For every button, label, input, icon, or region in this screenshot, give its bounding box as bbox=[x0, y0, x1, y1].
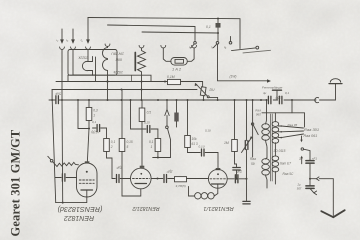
capacitor C10 grid V2 bbox=[112, 178, 131, 180]
transformer T1 core bbox=[270, 114, 272, 181]
jack J1 bbox=[315, 98, 319, 103]
svg-text:1: 1 bbox=[93, 114, 95, 118]
svg-text:1: 1 bbox=[151, 145, 153, 149]
tube V1 bbox=[77, 163, 98, 197]
label R4 value bbox=[167, 75, 175, 79]
svg-text:Raa: Raa bbox=[250, 157, 256, 161]
bus junction dots bbox=[51, 99, 53, 101]
svg-text:10k: 10k bbox=[192, 137, 198, 141]
capacitor C1 bbox=[56, 96, 59, 104]
coil L2 bbox=[82, 61, 88, 70]
wire bus2 bbox=[108, 25, 196, 41]
svg-text:1522k: 1522k bbox=[78, 56, 88, 60]
svg-text:1M: 1M bbox=[224, 141, 229, 145]
svg-text:REN1821/1: REN1821/1 bbox=[203, 205, 233, 211]
label A1 bbox=[55, 39, 59, 43]
label C12 value bbox=[199, 145, 206, 149]
contact K4 bbox=[48, 156, 51, 159]
contact K3 bbox=[230, 37, 232, 42]
resistor R8 bbox=[234, 100, 236, 140]
resistor R10 bbox=[121, 90, 123, 139]
wire heater line bbox=[52, 89, 197, 91]
wire L1 to bus bbox=[107, 70, 109, 100]
svg-text:4μ: 4μ bbox=[263, 91, 267, 95]
svg-text:2μF: 2μF bbox=[235, 170, 243, 174]
label R2 value bbox=[147, 111, 152, 115]
svg-text:0,5: 0,5 bbox=[147, 111, 152, 115]
contact K1 bbox=[194, 42, 197, 45]
label Raa59 bbox=[250, 157, 256, 161]
resistor R6 bbox=[175, 177, 187, 182]
wire left rail bbox=[51, 90, 53, 101]
label A2 bbox=[65, 39, 69, 43]
arrowhead detector bbox=[267, 79, 271, 82]
svg-text:(RENS1823d): (RENS1823d) bbox=[58, 205, 103, 214]
contact K8 bbox=[310, 188, 314, 192]
svg-text:Raa: Raa bbox=[255, 108, 261, 112]
diode D1 bbox=[166, 100, 168, 110]
svg-text:0,1U: 0,1U bbox=[199, 145, 206, 149]
label C13 value bbox=[235, 170, 243, 174]
tap selector arrow bbox=[301, 136, 303, 140]
wire mid line bbox=[56, 82, 203, 88]
label C17 value bbox=[297, 182, 302, 186]
variable capacitor C8 bbox=[246, 100, 248, 141]
resistor R9 bbox=[104, 139, 110, 152]
label L1 value b bbox=[115, 58, 122, 62]
label R8 value bbox=[224, 141, 229, 145]
label R9 value bbox=[111, 140, 116, 144]
resistor R3 bbox=[155, 139, 161, 152]
svg-text:+1(9): +1(9) bbox=[91, 130, 99, 134]
svg-text:REN1822: REN1822 bbox=[64, 214, 94, 221]
capacitor C17 bbox=[306, 186, 314, 189]
wire to speaker bbox=[309, 178, 311, 180]
wire bus1 top bbox=[88, 18, 240, 49]
svg-text:REN1821/2: REN1821/2 bbox=[132, 205, 159, 211]
wire A2 down bbox=[73, 49, 96, 75]
label R6 value bbox=[176, 184, 186, 188]
label C6 bbox=[285, 91, 290, 95]
label A3 bbox=[79, 39, 84, 44]
label C11 value bbox=[166, 170, 174, 174]
svg-text:Raa 061: Raa 061 bbox=[304, 134, 318, 138]
label tap Raa47 bbox=[280, 162, 291, 166]
coil shield box bbox=[68, 50, 117, 76]
label R5 value bbox=[210, 88, 215, 92]
label T1 top bbox=[255, 108, 261, 112]
wire A1 down bbox=[61, 49, 64, 202]
label C5 bbox=[263, 91, 267, 95]
svg-text:0,3: 0,3 bbox=[93, 109, 98, 113]
svg-text:1522k: 1522k bbox=[113, 70, 123, 74]
transformer T1 primary lead bbox=[265, 100, 268, 124]
capacitor C14 bbox=[233, 168, 241, 171]
label C2 value bbox=[275, 96, 281, 100]
capacitor C2 bbox=[273, 89, 282, 91]
contact K5 bbox=[166, 126, 169, 129]
wire branch to R1 junction bbox=[78, 100, 89, 129]
antenna dome E1 bbox=[329, 83, 342, 85]
svg-text:Fernempfänger: Fernempfänger bbox=[262, 86, 284, 90]
resistor R1 bbox=[88, 100, 90, 108]
transformer T1 winding B bbox=[274, 113, 276, 122]
fuse F1 bbox=[217, 19, 219, 41]
svg-text:1W 28U: 1W 28U bbox=[111, 52, 124, 56]
antenna arrow A3 bbox=[87, 18, 89, 40]
svg-text:60R: 60R bbox=[115, 58, 122, 62]
antenna arrow A1 bbox=[61, 29, 63, 39]
svg-text:1 A 2: 1 A 2 bbox=[172, 67, 182, 72]
wire L3 to bus bbox=[141, 72, 143, 100]
svg-text:(1W): (1W) bbox=[230, 75, 237, 79]
label R3 value bbox=[149, 140, 154, 144]
capacitor C11 bbox=[164, 175, 167, 183]
transformer T1 winding A2 bbox=[266, 157, 267, 159]
tap selector fan bbox=[281, 126, 303, 128]
label C1 value bbox=[54, 92, 61, 96]
svg-text:61 3: 61 3 bbox=[192, 142, 198, 146]
svg-text:2μF: 2μF bbox=[115, 166, 123, 170]
capacitor C5 series bbox=[268, 96, 271, 103]
wire bbox=[153, 157, 171, 159]
label L2 value bbox=[78, 56, 88, 60]
svg-text:100: 100 bbox=[275, 96, 281, 100]
label tap Raa95 bbox=[288, 123, 298, 127]
selector rail bbox=[252, 100, 254, 157]
capacitor C16 bbox=[306, 161, 314, 164]
label F2 value bbox=[172, 67, 182, 72]
tap stubs bbox=[278, 126, 281, 138]
small labels bbox=[54, 25, 319, 191]
capacitor C13 bbox=[235, 175, 238, 183]
speaker arrow S1 bbox=[321, 211, 333, 217]
label tap Raa50 bbox=[283, 172, 295, 176]
label R1 value bbox=[93, 109, 98, 113]
resistor R2 bbox=[141, 100, 143, 108]
label tube V1 bbox=[58, 205, 103, 214]
fuse F2 bbox=[171, 58, 188, 66]
svg-text:0,1U: 0,1U bbox=[205, 129, 212, 133]
wire K2 to detector line bbox=[218, 44, 268, 81]
label R1 note bbox=[91, 130, 99, 134]
label L1 value a bbox=[111, 52, 124, 56]
svg-text:0,15: 0,15 bbox=[127, 140, 133, 144]
capacitor C3 grid bbox=[55, 177, 77, 179]
lever arrow K9 bbox=[301, 156, 303, 159]
tube labels rotated 180 bbox=[58, 205, 234, 221]
capacitor C6 series bbox=[279, 96, 282, 103]
label C10 value bbox=[115, 166, 123, 170]
label C9 value bbox=[92, 120, 97, 124]
coil L3 zigzag bbox=[138, 48, 146, 72]
svg-text:0,1: 0,1 bbox=[111, 140, 116, 144]
label C16 note bbox=[312, 157, 318, 161]
label tap Raa301 bbox=[304, 127, 319, 132]
svg-text:0,25: 0,25 bbox=[144, 121, 150, 125]
svg-text:0,1: 0,1 bbox=[92, 120, 97, 124]
capacitor C15 bbox=[243, 201, 250, 204]
fuse F2 hooks bbox=[161, 46, 166, 48]
label C16 value bbox=[298, 157, 303, 161]
label K2 bbox=[210, 46, 214, 50]
tube V2 top cap bbox=[140, 166, 145, 168]
svg-text:6am E7: 6am E7 bbox=[280, 162, 291, 166]
label pot note bbox=[230, 75, 237, 79]
svg-text:2μF: 2μF bbox=[166, 170, 174, 174]
svg-text:Raa 95: Raa 95 bbox=[288, 123, 298, 127]
label K1 bbox=[188, 46, 192, 50]
label tube V2 bbox=[132, 205, 159, 211]
label R10 value bbox=[127, 140, 133, 144]
capacitor C4 bbox=[131, 100, 158, 139]
svg-text:0,1: 0,1 bbox=[149, 140, 154, 144]
capacitor C7 block bbox=[176, 100, 178, 113]
wire V1 cathode bbox=[56, 197, 87, 203]
svg-text:5nF: 5nF bbox=[54, 92, 61, 96]
coil L5 zigzag bbox=[53, 162, 79, 167]
svg-text:Raa 5C: Raa 5C bbox=[283, 172, 295, 176]
label F1 bbox=[206, 25, 211, 29]
svg-text:3Ω 0115: 3Ω 0115 bbox=[274, 149, 286, 153]
coil L4 cathode bbox=[214, 188, 218, 196]
band switch lever bbox=[232, 48, 256, 51]
svg-text:0,1: 0,1 bbox=[285, 91, 290, 95]
svg-text:+F1: +F1 bbox=[312, 157, 318, 161]
label tube V3 bbox=[203, 205, 233, 211]
label L1 value c bbox=[113, 70, 123, 74]
transformer T1 winding A bbox=[262, 124, 270, 129]
svg-text:3,7M(5): 3,7M(5) bbox=[176, 184, 186, 188]
wire box bbox=[291, 100, 293, 113]
tube V1 top cap bbox=[85, 161, 90, 163]
tube V3 bbox=[208, 169, 227, 188]
label K3 bbox=[223, 46, 227, 50]
resistor R7 bbox=[187, 100, 189, 136]
transformer T1 winding B2 bbox=[272, 156, 279, 161]
label R7 value bbox=[192, 137, 198, 141]
main bus bbox=[49, 99, 56, 101]
potentiometer R5 bbox=[200, 87, 206, 96]
wire V3 anode bbox=[227, 178, 234, 180]
antenna arrow A2 bbox=[72, 29, 74, 39]
svg-text:0,1: 0,1 bbox=[206, 25, 211, 29]
wire A3 down bbox=[87, 49, 89, 61]
svg-text:0,1M: 0,1M bbox=[167, 75, 175, 79]
label tap Raa115 bbox=[274, 149, 286, 153]
label tap Raa061 bbox=[304, 134, 318, 138]
resistor R4 bbox=[168, 79, 181, 84]
wire V2 anode bbox=[151, 178, 163, 180]
tube V2 bbox=[131, 168, 152, 189]
contact K2 bbox=[216, 42, 219, 45]
contact K7 bbox=[301, 148, 303, 150]
label text note bbox=[262, 86, 284, 90]
contact K6 bbox=[251, 123, 253, 125]
tube V3 top cap bbox=[216, 168, 221, 170]
label C4 value bbox=[144, 121, 150, 125]
capacitor C9 bbox=[93, 128, 107, 139]
svg-text:5: 5 bbox=[127, 145, 129, 149]
wire pot to bus bbox=[203, 96, 205, 100]
coil L3 core bbox=[134, 53, 136, 71]
coil L1 vertical bbox=[105, 44, 110, 46]
svg-text:50Γ: 50Γ bbox=[297, 187, 302, 191]
svg-text:062: 062 bbox=[256, 112, 262, 116]
wire bus3 bbox=[142, 32, 218, 33]
svg-text:Raa 301: Raa 301 bbox=[304, 127, 319, 132]
svg-text:59: 59 bbox=[251, 162, 255, 166]
capacitor C12 bbox=[202, 149, 205, 156]
svg-text:Gearet 301 GM/GT: Gearet 301 GM/GT bbox=[8, 129, 22, 236]
svg-text:DU: DU bbox=[210, 88, 215, 92]
label C14 value bbox=[205, 129, 212, 133]
wire to fuse F2 bbox=[163, 48, 171, 61]
